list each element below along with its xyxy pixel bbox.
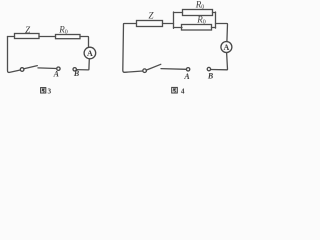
wire pivot to bottom-left corner and up — [8, 37, 21, 73]
svg-text:R0: R0 — [195, 0, 205, 10]
wire A to switch (fig4) — [161, 68, 186, 71]
caption fig3: hand-drawn 图 glyph — [41, 88, 46, 93]
wire right junction to corner and down to ammeter — [216, 24, 228, 42]
wire top-left horizontal — [8, 36, 15, 38]
svg-text:R0: R0 — [196, 15, 206, 26]
top branch wire left — [174, 12, 183, 14]
svg-text:Z: Z — [148, 10, 154, 20]
terminal B circle — [73, 68, 76, 71]
switch lever (fig4) — [146, 64, 161, 70]
svg-text:B: B — [73, 69, 80, 78]
svg-text:A: A — [53, 69, 60, 78]
wire top-left to Z — [124, 23, 137, 26]
right junction vertical — [215, 12, 217, 28]
bottom branch wire right — [212, 27, 216, 29]
top branch wire right — [213, 12, 216, 14]
ammeter A1 circle — [84, 47, 96, 59]
terminal B circle (fig4) — [207, 67, 210, 70]
wire ammeter down then left to B — [211, 53, 228, 70]
resistor Z2 box — [137, 21, 163, 27]
wire R0 to top-right corner, down to ammeter — [80, 37, 89, 48]
resistor Z1 box — [15, 34, 40, 39]
wire pivot to bottom-left corner and up (fig4) — [123, 24, 143, 72]
wire Z to left junction — [163, 23, 174, 25]
svg-text:R0: R0 — [58, 25, 68, 36]
wire between Z and R0 — [39, 36, 56, 38]
switch lever — [24, 66, 37, 69]
resistor R0 bottom box — [182, 25, 212, 31]
left junction vertical — [173, 12, 175, 28]
svg-text:4: 4 — [181, 88, 185, 96]
terminal A circle — [57, 67, 60, 70]
bottom branch wire left — [174, 27, 183, 29]
svg-text:A: A — [183, 72, 190, 81]
caption fig4: hand-drawn 图 glyph — [172, 87, 178, 93]
svg-text:A: A — [87, 49, 93, 58]
wire A to switch — [38, 67, 57, 70]
switch pivot circle (fig4) — [143, 69, 147, 73]
resistor R0 box — [56, 35, 81, 39]
svg-text:3: 3 — [48, 87, 52, 95]
svg-text:B: B — [207, 72, 214, 81]
svg-text:A: A — [224, 43, 230, 52]
resistor R0 top box — [183, 10, 213, 16]
terminal A circle (fig4) — [186, 68, 189, 71]
switch pivot circle — [20, 68, 24, 72]
ammeter A2 circle — [221, 42, 232, 53]
wire ammeter down to corner then left to B — [77, 59, 90, 70]
